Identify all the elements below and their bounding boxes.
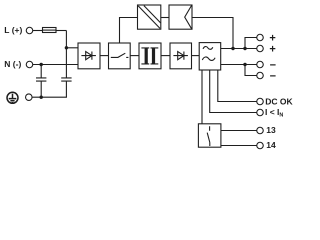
PFC block (diagonal) [138,5,161,29]
wire diode to regulator [192,55,200,57]
wire L vertical [65,31,67,78]
svg-text:L (+): L (+) [4,25,22,35]
wire to relay [201,70,203,124]
wire - bus [221,64,257,66]
switch block S1 [109,43,131,69]
terminal I<IN [257,109,264,116]
capacitor C1 [36,65,46,98]
ground PE symbol [7,92,18,103]
svg-text:N (-): N (-) [4,59,21,69]
diode D2 [173,52,188,60]
wire + branch up [245,38,257,49]
rectifier block U1 [78,43,100,69]
terminal N(-) [26,61,33,68]
wire PFC to chevron block [161,17,169,19]
terminal DC OK [257,98,264,105]
svg-text:14: 14 [266,140,276,150]
terminal 13 [257,127,264,134]
junction PE/C1 [40,96,43,99]
terminal PE [26,94,33,101]
sine symbol top [203,47,213,50]
wire 13 [221,130,257,132]
wire I<IN [210,70,257,113]
terminal +2 [257,45,264,52]
switch contact [111,53,129,57]
wire PE line [32,96,67,98]
wire - branch down [245,65,257,76]
chevron block [169,5,192,29]
terminal -2 [257,72,264,79]
fuse F1 [43,28,57,33]
transformer T1 block [139,43,161,69]
diode D1 [81,52,96,60]
wire switch top to PFC [120,18,138,44]
terminal L(+) [26,27,33,34]
svg-text:−: − [270,71,276,83]
junction + bus right [243,47,246,50]
junction L/rectifier [65,46,68,49]
output diode block [170,43,192,69]
junction - bus [243,63,246,66]
wire chevron to + bus [192,18,233,49]
svg-text:DC OK: DC OK [265,97,293,107]
relay block K1 [198,124,221,147]
regulator block U2 [199,43,221,70]
svg-text:+: + [269,44,275,56]
junction N/C1 [40,63,43,66]
wire transformer to diode [161,55,170,57]
sine symbol bottom [202,57,215,61]
wire 14 [221,145,257,147]
wire DC OK [218,70,257,102]
wire rectifier to switch [100,55,109,57]
junction + bus left [231,47,234,50]
terminal -1 [257,61,264,68]
terminal 14 [257,142,264,149]
svg-text:13: 13 [266,125,276,135]
wire + bus [221,48,257,50]
relay contact [207,126,210,146]
terminal +1 [257,34,264,41]
wire fuse to corner [56,30,66,32]
svg-text:I < IN: I < IN [265,107,283,119]
wire L to fuse [33,30,43,32]
wire N line [33,64,78,66]
transformer core symbol [141,48,158,64]
wire switch to transformer [130,55,139,57]
capacitor C2 [61,78,71,97]
wire L branch to rectifier [66,47,78,49]
